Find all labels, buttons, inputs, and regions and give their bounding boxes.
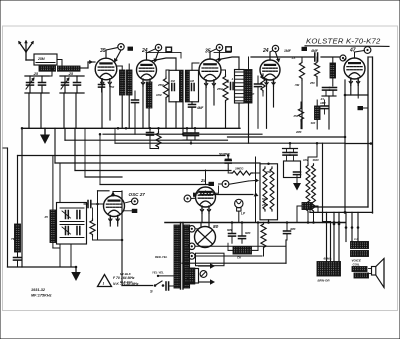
antenna coupling box bbox=[34, 54, 57, 65]
wire plate to right bus bbox=[357, 95, 359, 98]
wire V2 plate to T1 bbox=[151, 58, 176, 70]
output transformer T4 primary bbox=[351, 242, 369, 249]
audio box bbox=[284, 161, 301, 178]
wire caps C12 C13 bar bbox=[183, 139, 199, 141]
capacitor C8 bbox=[323, 87, 330, 89]
divider resistor R12 bbox=[306, 164, 310, 213]
wire V2 pins bbox=[142, 82, 144, 128]
osc trimmer C16b bbox=[76, 227, 78, 235]
svg-text:BRN-OR: BRN-OR bbox=[318, 279, 331, 283]
svg-text:3600: 3600 bbox=[313, 158, 320, 162]
tuned circuit C2 top wire bbox=[60, 75, 84, 77]
osc trimmer C16a bbox=[65, 227, 67, 235]
bus line y177 bbox=[85, 176, 122, 178]
resistor R10 27M bbox=[196, 191, 215, 195]
terminal box V6 bbox=[132, 209, 138, 213]
bus line y170 bbox=[75, 170, 231, 172]
wire T2 drops bbox=[238, 103, 240, 128]
resistor R4 bbox=[261, 74, 265, 92]
T3 primary bbox=[174, 225, 180, 288]
terminal box right bbox=[358, 106, 364, 110]
IF can T1 secondary bbox=[186, 70, 199, 102]
power transformer T3 core bbox=[180, 223, 182, 290]
caps top bar bbox=[283, 148, 298, 150]
speaker stub 2 bbox=[338, 212, 340, 261]
svg-text:MF:175KHz: MF:175KHz bbox=[31, 294, 52, 298]
tube V2 24 bbox=[137, 60, 157, 80]
wire T1 sec top bbox=[191, 63, 193, 70]
svg-text:4MF: 4MF bbox=[196, 106, 204, 110]
svg-text:10M: 10M bbox=[156, 93, 162, 97]
svg-text:4MF: 4MF bbox=[289, 227, 296, 231]
output transformer T4 secondary bbox=[351, 251, 369, 257]
grid cap V5 bbox=[340, 55, 346, 61]
V6 pins bbox=[109, 216, 111, 226]
wire V4 pins bbox=[266, 79, 268, 128]
heater winding W1 bbox=[189, 243, 195, 249]
speaker SP1 bbox=[372, 267, 376, 276]
heater winding W3 bbox=[189, 226, 195, 232]
heater winding W2 bbox=[189, 253, 195, 259]
terminal cap V3 bbox=[216, 44, 222, 50]
svg-text:8MF: 8MF bbox=[245, 231, 251, 235]
grid resistor R9 bbox=[90, 219, 95, 236]
grid arrow V4 bbox=[276, 52, 279, 60]
volume control box bbox=[260, 164, 278, 220]
ground symbol osc bbox=[75, 267, 77, 272]
svg-text:50M: 50M bbox=[262, 197, 268, 201]
speaker stub 4 bbox=[351, 212, 353, 241]
field feed wires bbox=[326, 212, 328, 261]
resistor R5 bbox=[299, 61, 304, 80]
main B bus bbox=[165, 222, 345, 224]
wire down x322 bbox=[322, 143, 324, 222]
junction dots bbox=[149, 127, 152, 130]
tube V8 80 rectifier bbox=[195, 227, 216, 248]
svg-text:1MF: 1MF bbox=[284, 49, 292, 53]
svg-text:1M: 1M bbox=[171, 79, 176, 83]
tube V3 35 bbox=[199, 59, 221, 81]
capacitor C10 bbox=[321, 105, 328, 107]
top cap V2 bbox=[146, 53, 148, 60]
capacitor C4 bbox=[189, 104, 196, 106]
wire det plate up bbox=[205, 168, 207, 171]
line switch S1 bbox=[122, 285, 153, 287]
capacitor C21 bbox=[294, 171, 301, 173]
terminal minus V6 bbox=[132, 198, 138, 204]
resistor R7 bbox=[298, 107, 303, 121]
svg-text:25M: 25M bbox=[157, 83, 164, 87]
choke lead bbox=[252, 249, 259, 251]
svg-text:S: S bbox=[150, 289, 153, 294]
tube V4 24 bbox=[260, 60, 280, 80]
wire right bottom A bbox=[310, 206, 368, 208]
volume wiper arrow1 bbox=[229, 181, 249, 184]
top cap V3 bbox=[209, 52, 211, 59]
speaker stub 3 bbox=[345, 212, 347, 241]
line capacitor C25 bbox=[165, 282, 167, 290]
B+ arrow 2 bbox=[199, 281, 211, 283]
filter capacitor C22 8MF bbox=[229, 233, 236, 235]
tube V5 47 bbox=[344, 58, 365, 79]
grid cap det bbox=[184, 195, 191, 202]
bias coil L5 bbox=[315, 106, 321, 120]
osc coil L7 bbox=[50, 210, 56, 243]
terminal cap det bbox=[222, 181, 229, 188]
svg-text:TM: TM bbox=[11, 237, 16, 241]
osc trimmer C15a bbox=[65, 211, 67, 219]
capacitor C13 bbox=[192, 132, 199, 134]
divider resistor R13 bbox=[312, 164, 316, 213]
top cap V4 wire bbox=[269, 52, 271, 60]
wire drop x64 bbox=[63, 93, 65, 128]
grid arrow V1 bbox=[116, 50, 122, 60]
svg-text:300: 300 bbox=[311, 121, 316, 125]
svg-text:YEL-YEL: YEL-YEL bbox=[152, 271, 164, 275]
volume resistor Rb bbox=[270, 167, 274, 211]
wire divider bottom bbox=[307, 213, 309, 223]
speaker feed wire bbox=[310, 211, 373, 213]
filter capacitor C23 8MF bbox=[239, 235, 246, 237]
bus line y137 bbox=[228, 136, 346, 138]
grid arrow V2 bbox=[155, 51, 158, 60]
grid resistor R2 bbox=[163, 77, 168, 99]
ground symbol main bbox=[44, 128, 46, 134]
svg-text:1M: 1M bbox=[190, 79, 195, 83]
svg-text:.01: .01 bbox=[320, 97, 324, 101]
terminal row wire V2 bbox=[146, 52, 181, 54]
resistor R3 bbox=[223, 75, 228, 102]
T3 secondary bbox=[184, 225, 190, 288]
voice coil winding A bbox=[352, 267, 367, 272]
terminal cap V1 bbox=[118, 44, 124, 50]
plate choke L8 bbox=[302, 203, 312, 210]
volume resistor Ra bbox=[263, 167, 267, 211]
svg-text:80: 80 bbox=[213, 224, 219, 230]
wire L2 bottom bbox=[121, 95, 123, 128]
speaker field return circle bbox=[200, 271, 207, 278]
capacitor C2b bbox=[74, 82, 81, 84]
wire R1 bbox=[128, 95, 130, 128]
tube V7 24 det bbox=[196, 187, 216, 207]
top wire V5 bbox=[354, 52, 356, 58]
speaker stub 1 bbox=[333, 212, 335, 261]
svg-text:25M: 25M bbox=[265, 170, 272, 174]
bus line y163 bbox=[55, 162, 260, 164]
right bus wire A bbox=[367, 57, 369, 207]
wire V4 plate up bbox=[269, 52, 271, 57]
bottom winding W4 bbox=[189, 268, 195, 284]
bus line y143 right bbox=[345, 143, 371, 145]
wire drop x41 bbox=[40, 93, 42, 128]
V7 pins down bbox=[201, 206, 203, 222]
terminal box V2 bbox=[166, 47, 172, 52]
svg-text:N K - 21-68 MHz: N K - 21-68 MHz bbox=[113, 282, 139, 286]
resistor R11 2MEG bbox=[231, 171, 253, 175]
wire T2 sec top bbox=[248, 57, 250, 70]
top cap V1 bbox=[105, 50, 107, 58]
svg-text:2MF: 2MF bbox=[295, 130, 302, 134]
bus line y190 bbox=[98, 190, 110, 192]
wire V5 cathode bbox=[345, 94, 368, 96]
osc box drop bbox=[59, 244, 61, 267]
IF can T2 primary bbox=[235, 70, 245, 104]
tube V6 27 bbox=[104, 196, 125, 217]
heater wires right bbox=[195, 245, 286, 247]
heater terminal frame bbox=[196, 253, 225, 266]
coupling capacitor C7 bbox=[314, 53, 316, 61]
variable capacitor C1a bbox=[27, 82, 34, 84]
volume wiper arrow2 bbox=[200, 194, 253, 196]
svg-text:250: 250 bbox=[293, 114, 299, 118]
V6 plate arrow bbox=[112, 192, 114, 197]
svg-text:.5M: .5M bbox=[295, 83, 300, 87]
tuned circuit C2 bottom wire bbox=[60, 92, 84, 94]
wire tuned1 to tuned2 bbox=[49, 75, 52, 77]
right bus wire B bbox=[372, 57, 374, 213]
heater box wire bbox=[195, 228, 198, 230]
svg-text:25: 25 bbox=[44, 215, 49, 219]
wire drop x29 bbox=[28, 93, 30, 128]
svg-text:1931-32: 1931-32 bbox=[31, 288, 46, 292]
capacitor C19 bbox=[283, 152, 290, 154]
tuned circuit C1 bottom wire bbox=[25, 92, 49, 94]
wire V3 pins bbox=[205, 80, 207, 128]
padder coil L6 bbox=[15, 224, 21, 252]
svg-text:10M: 10M bbox=[303, 158, 309, 162]
osc drop x97 bbox=[97, 204, 99, 240]
bus line y184 bbox=[100, 184, 208, 186]
svg-text:RED-YEL: RED-YEL bbox=[155, 255, 168, 259]
svg-text:F 70 - 64 MHz: F 70 - 64 MHz bbox=[113, 276, 135, 280]
wire bottom return bbox=[182, 262, 286, 264]
svg-text:OSC 27: OSC 27 bbox=[129, 192, 146, 197]
terminal cap V2 bbox=[155, 44, 161, 50]
svg-text:24: 24 bbox=[262, 48, 269, 54]
svg-text:.1MF: .1MF bbox=[248, 92, 255, 96]
capacitor C1b bbox=[39, 82, 46, 84]
ground bus bbox=[22, 127, 240, 129]
top wire to V5 grid bbox=[251, 56, 315, 58]
wire T1 drops bbox=[175, 102, 177, 129]
junction dots bus bbox=[333, 221, 336, 224]
bus line y140 bbox=[65, 139, 228, 141]
bus line y155 bbox=[18, 155, 226, 157]
osc box wire mid2 bbox=[60, 224, 84, 226]
terminal box V1 bbox=[128, 47, 134, 51]
capacitor C5 bbox=[230, 83, 232, 90]
svg-text:250: 250 bbox=[309, 81, 315, 85]
wire coil to grid bbox=[80, 67, 88, 69]
svg-text:2MEG: 2MEG bbox=[234, 167, 244, 171]
wire V5 pins down bbox=[350, 78, 352, 95]
IF can T1 primary bbox=[169, 70, 183, 102]
tube V1 35 bbox=[95, 58, 117, 80]
wire V1 pins bbox=[101, 85, 103, 129]
volume box drop bbox=[268, 220, 270, 223]
wire T2 top bbox=[216, 57, 239, 70]
wire drop x76 bbox=[75, 93, 77, 128]
tuned circuit C1 top wire bbox=[25, 75, 49, 77]
terminal box mid bbox=[302, 47, 308, 51]
svg-text:60MA: 60MA bbox=[324, 257, 332, 261]
capacitor C20 bbox=[290, 152, 297, 154]
wire drop x22 bbox=[21, 128, 23, 267]
svg-text:COIL: COIL bbox=[353, 263, 360, 267]
filter choke CH1 bbox=[233, 247, 252, 254]
terminal cap V4 bbox=[272, 45, 278, 51]
T1 secondary cap bbox=[191, 84, 193, 91]
svg-text:35: 35 bbox=[100, 48, 106, 54]
svg-text:.1A: .1A bbox=[291, 56, 295, 60]
svg-text:25M: 25M bbox=[37, 57, 45, 61]
ground symbol audio bbox=[296, 180, 298, 183]
resistor R6 bbox=[314, 61, 319, 78]
svg-text:8MF: 8MF bbox=[227, 228, 233, 232]
capacitor C3 bbox=[132, 99, 139, 101]
bus line y148 bbox=[3, 147, 8, 149]
wire ant box to coil bbox=[45, 65, 47, 66]
resistor R8 bbox=[156, 132, 161, 149]
terminal row wire V3 bbox=[214, 51, 231, 53]
warning triangle bbox=[98, 275, 112, 287]
wire x122 bbox=[121, 191, 123, 286]
screen coil L2 bbox=[120, 70, 126, 95]
svg-text:300: 300 bbox=[128, 85, 133, 89]
pilot lamp LP1 bbox=[235, 199, 243, 207]
voice coil winding B bbox=[354, 273, 369, 278]
antenna coil L1 bbox=[39, 66, 56, 71]
T2 secondary coil bbox=[245, 70, 252, 104]
svg-text:KOLSTER K-70-K72: KOLSTER K-70-K72 bbox=[306, 37, 381, 46]
wire caps bar bbox=[322, 95, 336, 97]
bus line y143 bbox=[115, 142, 345, 144]
oscillator box bbox=[57, 203, 87, 245]
grid coil L4 bbox=[330, 63, 336, 78]
grid arrow V3 bbox=[218, 51, 220, 60]
terminal box det bbox=[209, 182, 215, 186]
coupling capacitor C17 bbox=[87, 201, 89, 208]
resistor R14 bbox=[261, 223, 266, 250]
svg-text:250: 250 bbox=[109, 85, 115, 89]
svg-text:1MF: 1MF bbox=[320, 101, 326, 105]
capacitor C12 bbox=[184, 132, 191, 134]
wire volume bottom feed bbox=[255, 157, 257, 223]
capacitor C18 500MMF bbox=[225, 160, 231, 162]
svg-text:25M: 25M bbox=[261, 203, 268, 207]
terminal box V3 bbox=[226, 47, 232, 52]
osc box wire mid bbox=[60, 207, 84, 209]
svg-text:25M: 25M bbox=[216, 87, 223, 91]
capacitor C11 bbox=[147, 132, 154, 134]
cathode coil L3 bbox=[146, 82, 152, 108]
field coil FC1 bbox=[317, 262, 341, 277]
capacitor C6 bbox=[255, 83, 262, 85]
junction dot V5 bbox=[344, 94, 347, 97]
bus line y134 bbox=[103, 133, 262, 135]
B+ arrow 1 bbox=[199, 265, 211, 267]
antenna bbox=[19, 42, 26, 52]
filter capacitor C24 4MF bbox=[284, 230, 291, 232]
svg-text:1.0: 1.0 bbox=[354, 237, 359, 241]
wire divider top bbox=[316, 144, 318, 158]
terminal cap V5 bbox=[364, 47, 371, 54]
capacitor C3b bbox=[99, 84, 105, 86]
variable capacitor C2a bbox=[62, 82, 69, 84]
fuse box bbox=[184, 269, 199, 284]
bottom wire left bbox=[8, 266, 77, 268]
resistor R1 bbox=[127, 70, 133, 95]
speaker stub 5 bbox=[357, 212, 359, 241]
capacitor C9 bbox=[330, 87, 337, 89]
osc trimmer C15b bbox=[76, 211, 78, 219]
capacitor C14 bbox=[14, 257, 22, 259]
T1 primary cap bbox=[171, 84, 173, 91]
